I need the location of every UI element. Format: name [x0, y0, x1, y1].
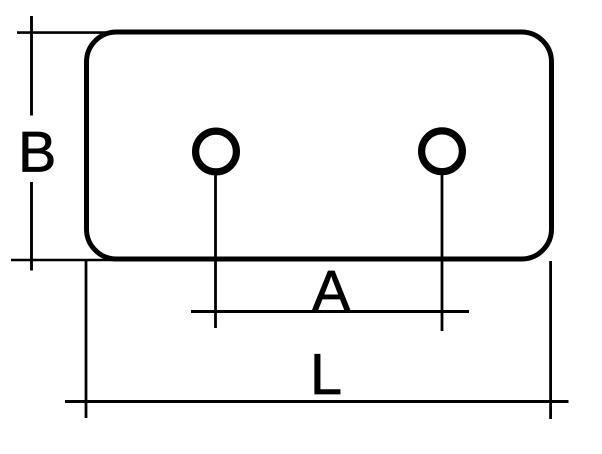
dimension A line [191, 310, 469, 313]
svg-text:B: B [18, 121, 56, 185]
hole 2 [422, 131, 463, 172]
dimension B line lower segment [30, 182, 33, 271]
dimension B extension line top [17, 31, 140, 34]
L extension line left [85, 261, 88, 418]
hole 1 [196, 131, 237, 172]
plate outline [87, 32, 552, 259]
L extension line right [549, 261, 552, 419]
svg-text:A: A [312, 260, 351, 324]
hole 2 center extension line [441, 172, 444, 331]
dimension B extension line bottom [11, 259, 140, 262]
hole 1 center extension line [214, 172, 217, 328]
dimension B line upper segment [30, 16, 33, 116]
svg-text:L: L [310, 343, 342, 407]
dimension L line [65, 400, 569, 403]
